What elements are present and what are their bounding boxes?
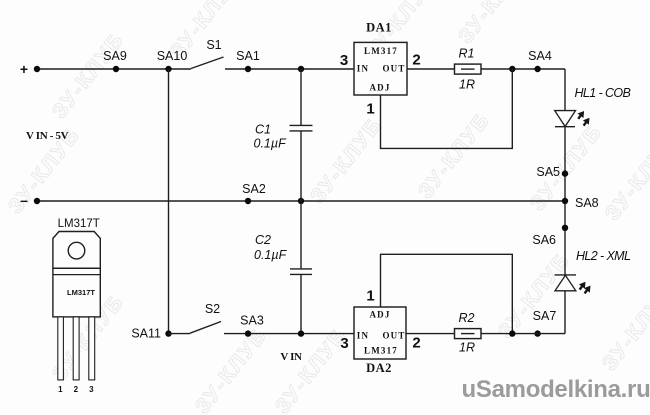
svg-text:1: 1 [366,288,374,305]
svg-text:LM317: LM317 [364,46,398,56]
wire DA2 ADJ feedback [381,254,513,333]
svg-text:HL2 - XML: HL2 - XML [576,249,631,263]
package body [53,268,100,317]
transistor package LM317T TO-220 drawing [53,218,100,394]
svg-text:ЗУ-КЛУБ: ЗУ-КЛУБ [601,130,650,225]
svg-text:+: + [20,61,28,77]
svg-text:3: 3 [340,335,348,352]
node junction C1 top [298,66,304,72]
node SA4 [528,49,552,72]
svg-text:0.1µF: 0.1µF [254,248,288,262]
op-amp U1 regulator DA1 LM317 [354,21,407,96]
LED HL1 [555,86,631,128]
svg-text:ADJ: ADJ [369,83,390,93]
svg-text:OUT: OUT [382,331,405,341]
wire top rail after switch [225,68,354,70]
node SA11 [131,327,171,341]
svg-text:LM317: LM317 [364,346,398,356]
svg-text:1: 1 [58,385,63,394]
node SA8 [562,196,599,210]
svg-text:uSamodelkina.ru: uSamodelkina.ru [462,376,650,403]
node SA5 [536,165,568,179]
capacitor C2 [254,233,312,274]
svg-text:SA10: SA10 [157,49,188,63]
svg-text:SA4: SA4 [528,49,552,63]
svg-text:SA6: SA6 [532,233,556,247]
svg-text:–: – [20,192,28,208]
svg-text:SA2: SA2 [242,182,266,196]
svg-text:SA5: SA5 [536,165,560,179]
wire DA2 out to R2 [406,333,455,335]
svg-text:IN: IN [357,331,369,341]
mounting hole [68,242,85,259]
node SA2 [242,182,266,204]
svg-text:2: 2 [74,385,79,394]
leg 1 [58,317,64,380]
wire bottom rail after switch [169,333,191,335]
arrow 2 [581,116,593,128]
svg-text:OUT: OUT [382,64,405,74]
svg-text:SA3: SA3 [240,314,264,328]
node SA3 [240,314,264,337]
node junction C branch middle [298,198,304,204]
leg 3 [89,317,95,380]
wire C branch top [300,69,302,125]
wire top rail left segment [37,68,191,70]
svg-text:R1: R1 [459,47,475,61]
svg-text:ЗУ-КЛУБ: ЗУ-КЛУБ [191,323,272,415]
package tab [53,232,100,269]
regulator DA2 LM317 [354,307,406,375]
svg-text:S1: S1 [206,38,221,52]
arrow 2 [582,283,594,295]
wire C branch bottom [300,275,302,334]
svg-text:C1: C1 [255,123,271,137]
node start minus [34,198,40,204]
svg-text:ADJ: ADJ [369,310,390,320]
svg-text:0.1µF: 0.1µF [254,137,288,151]
svg-text:ЗУ-КЛУБ: ЗУ-КЛУБ [598,280,650,375]
svg-text:SA1: SA1 [236,49,260,63]
node junction ADJ feedback bottom [509,330,515,336]
svg-text:SA9: SA9 [103,49,127,63]
svg-text:LM317T: LM317T [67,288,95,297]
svg-text:LM317T: LM317T [58,218,100,230]
wire middle rail [37,200,565,202]
arrow 1 [575,109,587,121]
svg-text:3: 3 [340,52,348,69]
svg-text:ЗУ-КЛУБ: ЗУ-КЛУБ [494,248,575,343]
node SA1 [236,49,260,72]
leg 2 [73,317,79,380]
svg-text:DA2: DA2 [366,361,392,375]
svg-text:IN: IN [357,64,369,74]
svg-text:DA1: DA1 [366,21,392,35]
svg-text:1R: 1R [459,341,475,355]
svg-text:V IN: V IN [280,351,302,363]
svg-text:3: 3 [89,385,94,394]
svg-text:V IN - 5V: V IN - 5V [26,130,69,142]
svg-text:R2: R2 [459,311,475,325]
switch S1 [191,38,224,69]
node SA9 [103,49,127,72]
node junction C2 bottom [298,330,304,336]
svg-text:ЗУ-КЛУБ: ЗУ-КЛУБ [48,28,129,123]
LED HL2 [555,249,631,296]
svg-text:C2: C2 [255,233,271,247]
svg-text:ЗУ-КЛУБ: ЗУ-КЛУБ [306,113,387,208]
node junction ADJ feedback top [509,66,515,72]
svg-text:S2: S2 [205,302,220,316]
svg-text:SA7: SA7 [533,309,557,323]
wire R1 to corner [481,68,565,70]
wire SA10 to SA11 vertical [168,69,170,334]
resistor R2 [455,311,482,355]
node SA6 [532,225,568,247]
arrow 1 [577,280,589,292]
svg-text:1: 1 [366,101,374,118]
resistor R1 [455,47,482,92]
wire right vertical rail upper [564,69,566,334]
svg-text:1R: 1R [459,78,475,92]
svg-text:HL1 - COB: HL1 - COB [575,86,631,100]
switch S2 [190,302,221,333]
capacitor C1 [254,123,313,151]
svg-text:ЗУ-КЛУБ: ЗУ-КЛУБ [454,0,535,48]
svg-text:SA11: SA11 [131,327,161,341]
svg-text:ЗУ-КЛУБ: ЗУ-КЛУБ [414,108,495,203]
node SA7 [533,309,557,337]
wire C branch mid [300,131,302,269]
svg-text:SA8: SA8 [575,196,599,210]
node SA10 [157,49,188,72]
svg-text:2: 2 [412,335,420,352]
wire DA1 out to R1 [407,68,455,70]
wire DA1 ADJ feedback [381,69,513,148]
wire R2 to right rail [481,333,565,335]
svg-text:2: 2 [412,52,420,69]
node start plus [34,66,40,72]
